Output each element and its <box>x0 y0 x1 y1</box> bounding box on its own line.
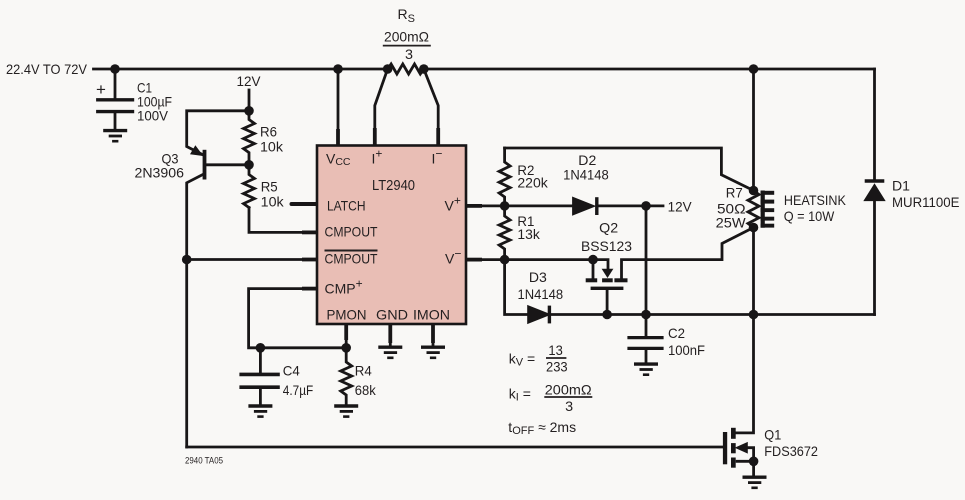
svg-text:10k: 10k <box>260 139 284 155</box>
node main column top <box>749 64 759 74</box>
resistor R6 <box>244 111 255 165</box>
svg-text:C2: C2 <box>668 325 685 341</box>
svg-text:R4: R4 <box>355 363 372 379</box>
svg-text:3: 3 <box>565 398 573 414</box>
svg-text:LT2940: LT2940 <box>372 177 415 194</box>
wire top rail right (RS to D1 corner) <box>424 68 875 71</box>
ground (R4) <box>334 406 358 417</box>
svg-text:LATCH: LATCH <box>327 198 366 214</box>
svg-text:Q1: Q1 <box>764 427 781 443</box>
pin stub CMPOUTbar <box>302 258 317 262</box>
diode D2 <box>573 197 597 215</box>
wire 12V column <box>645 206 648 315</box>
ground (IMON pin) <box>421 347 445 358</box>
wire GND stub <box>389 324 392 346</box>
wire CMPOUTbar line <box>187 258 317 261</box>
wire IMON stub <box>432 324 435 346</box>
svg-text:R6: R6 <box>260 123 277 139</box>
svg-text:22.4V TO 72V: 22.4V TO 72V <box>6 61 88 77</box>
svg-text:MUR1100E: MUR1100E <box>892 194 960 210</box>
node C2 rail <box>641 310 651 320</box>
node R7 bottom <box>749 223 759 233</box>
bar RS fraction <box>383 45 431 47</box>
node RS right <box>419 64 429 74</box>
node Q2 source rail <box>602 310 612 320</box>
svg-text:200mΩ: 200mΩ <box>384 29 429 45</box>
IC pin labels <box>325 147 462 323</box>
ground (C2) <box>634 364 658 375</box>
transistor Q3 2N3906 <box>191 146 207 179</box>
svg-text:HEATSINK: HEATSINK <box>784 192 847 208</box>
wire D3 branch down <box>505 260 528 315</box>
diode D3 <box>528 306 550 324</box>
resistor R4 <box>341 324 352 404</box>
pin stub I+ <box>373 128 377 146</box>
overline CMPOUTbar <box>325 250 378 252</box>
node R6/R5 base <box>244 160 254 170</box>
wire V+ top jog to R7 <box>505 148 754 191</box>
wire 12V stub <box>248 90 251 111</box>
svg-text:CMPOUT: CMPOUT <box>325 251 378 267</box>
wire R5 to CMPOUT <box>249 208 317 233</box>
node V+/R2 <box>500 201 510 211</box>
svg-text:12V: 12V <box>668 199 693 215</box>
ground (C4) <box>248 406 272 417</box>
svg-text:BSS123: BSS123 <box>581 238 632 254</box>
heatsink symbol <box>761 191 775 228</box>
svg-text:C4: C4 <box>283 363 300 379</box>
node Q1 source <box>749 457 759 467</box>
svg-text:2940 TA05: 2940 TA05 <box>185 456 223 466</box>
svg-text:1N4148: 1N4148 <box>563 166 609 182</box>
svg-text:PMON: PMON <box>327 307 367 323</box>
svg-text:1N4148: 1N4148 <box>518 286 564 302</box>
node 12V right <box>641 201 651 211</box>
svg-text:100V: 100V <box>137 108 169 124</box>
node Q2 gate <box>588 255 598 265</box>
ground (Q1) <box>743 477 767 488</box>
svg-text:D3: D3 <box>529 269 547 285</box>
svg-text:R5: R5 <box>261 178 278 194</box>
pin stub I- <box>436 128 440 146</box>
svg-text:D1: D1 <box>892 177 910 193</box>
wire left column down <box>185 260 188 448</box>
pin stub IMON <box>431 324 435 343</box>
transistor Q2 BSS123 <box>586 269 628 290</box>
svg-text:R7: R7 <box>726 185 743 201</box>
wire Q2 gate lead <box>592 260 595 279</box>
pin stub CMPOUT <box>302 230 317 234</box>
capacitor C1 <box>98 69 133 129</box>
svg-text:IMON: IMON <box>413 307 450 323</box>
svg-text:Q2: Q2 <box>599 220 618 236</box>
bar kV fraction <box>546 357 566 359</box>
svg-text:220k: 220k <box>517 175 548 191</box>
resistor R2 <box>499 148 510 206</box>
svg-text:12V: 12V <box>237 73 262 89</box>
pin stub GND <box>388 324 392 343</box>
svg-text:10k: 10k <box>261 194 285 210</box>
svg-text:233: 233 <box>546 358 568 374</box>
wire top rail left (input to RS) <box>94 68 388 71</box>
node C4 <box>256 343 266 353</box>
node main column rail <box>749 310 759 320</box>
wire Q3 base <box>206 163 249 166</box>
wire V- line A <box>466 260 608 269</box>
wire VCC drop <box>337 69 340 146</box>
svg-text:GND: GND <box>376 307 408 323</box>
wire Q2 source lead <box>606 290 609 315</box>
node Q3 collector/CMPOUTbar <box>182 255 192 265</box>
node RS left <box>383 64 393 74</box>
wire D1 column <box>873 69 876 179</box>
node 12V/R6 <box>244 106 254 116</box>
svg-text:25W: 25W <box>716 215 747 231</box>
wire CMP+ <box>249 289 347 348</box>
svg-text:3: 3 <box>405 46 413 62</box>
svg-text:13: 13 <box>548 342 563 358</box>
svg-text:68k: 68k <box>355 382 377 398</box>
wire bottom rail to Q1 gate <box>187 446 723 449</box>
wire main column upper <box>752 69 755 191</box>
pin stub PMON <box>344 324 348 340</box>
wire LATCH stub <box>292 202 318 206</box>
wire D2 cathode to 12V node <box>599 204 663 207</box>
svg-text:100nF: 100nF <box>668 342 705 358</box>
resistor R7 <box>748 191 759 228</box>
node V-/R1 <box>500 255 510 265</box>
ground (GND pin) <box>378 347 402 358</box>
capacitor C2 <box>629 315 662 363</box>
pin stub CMP+ <box>302 287 317 291</box>
wire main column lower <box>736 228 754 433</box>
node R7 top <box>749 186 759 196</box>
svg-text:13k: 13k <box>517 226 540 242</box>
wire bottom rail (D3 cathode to D1) <box>551 313 875 316</box>
node VCC rail <box>333 64 343 74</box>
wire RS kelvin left to I+ <box>375 69 388 146</box>
node input/C1 <box>110 64 120 74</box>
resistor R1 <box>499 206 510 260</box>
svg-text:+: + <box>96 80 106 99</box>
resistor RS (sense) <box>388 64 424 74</box>
svg-text:Q = 10W: Q = 10W <box>784 208 835 224</box>
wire Q3 collector down <box>187 175 203 260</box>
svg-text:kI =: kI = <box>509 385 531 403</box>
svg-text:CMPOUT: CMPOUT <box>325 224 378 240</box>
wire RS kelvin right to I- <box>424 69 438 146</box>
fraction bars <box>383 46 593 397</box>
wire V- line B to R7 bottom <box>622 228 754 279</box>
ground (C1) <box>103 131 127 142</box>
diode D1 <box>864 181 885 201</box>
svg-text:4.7µF: 4.7µF <box>283 382 313 398</box>
capacitor C4 <box>241 348 278 405</box>
svg-text:200mΩ: 200mΩ <box>545 381 592 397</box>
IC U1 LT2940 body <box>317 146 466 325</box>
resistor R5 <box>244 165 255 208</box>
pin stub V+ <box>466 204 482 208</box>
thick pin stubs near IC edges <box>302 128 482 343</box>
bar kI fraction <box>544 396 592 398</box>
svg-text:2N3906: 2N3906 <box>135 165 185 181</box>
pin stub V- <box>466 258 482 262</box>
svg-text:FDS3672: FDS3672 <box>764 443 818 459</box>
pin stub VCC <box>336 129 340 146</box>
node PMON/R4 <box>341 343 351 353</box>
transistor Q1 FDS3672 <box>723 428 754 476</box>
wire V+ line <box>466 204 573 207</box>
wire Q3 emitter to 12V node <box>187 111 249 155</box>
